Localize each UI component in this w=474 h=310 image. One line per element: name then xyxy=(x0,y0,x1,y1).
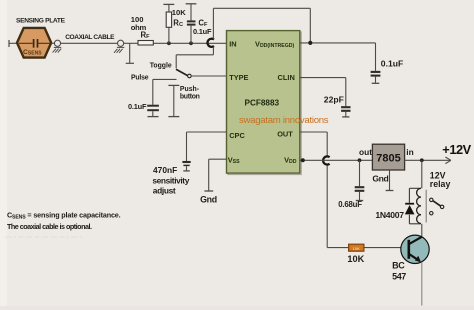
svg-text:CSENS: CSENS xyxy=(23,49,42,57)
wire sensing plate to coax left shield xyxy=(51,42,54,44)
label SENSING PLATE xyxy=(16,17,66,24)
wire relay to collector xyxy=(421,224,423,237)
label pin CLIN xyxy=(278,73,295,82)
wire coax right to RF xyxy=(124,42,138,44)
svg-text:0.1uF: 0.1uF xyxy=(128,102,147,111)
svg-text:button: button xyxy=(180,93,200,100)
svg-text:10K: 10K xyxy=(172,8,186,17)
svg-text:0.1uF: 0.1uF xyxy=(381,59,403,69)
capacitor 22pF xyxy=(341,107,350,117)
svg-text:adjust: adjust xyxy=(153,185,176,195)
wire toggle branch down-left from jump xyxy=(176,55,213,69)
svg-text:0.68uF: 0.68uF xyxy=(338,200,362,209)
label Gnd of 7805 xyxy=(372,174,388,184)
ground VSS end bar xyxy=(204,190,213,192)
svg-text:--- - -- --- -- --- --- -- - -: --- - -- --- -- --- --- -- - --- - xyxy=(5,232,83,241)
capacitor CSENS sensing plate hexagon xyxy=(17,28,51,58)
label 100 ohm xyxy=(131,15,147,32)
junction node VDD(INTREGD) xyxy=(308,41,312,45)
svg-text:BC: BC xyxy=(392,261,405,271)
svg-text:10K: 10K xyxy=(347,254,364,264)
svg-text:7805: 7805 xyxy=(376,152,400,164)
wire VDD(INTREGD) pin to 0.1uF decoupling xyxy=(300,43,376,71)
svg-text:Push-: Push- xyxy=(180,86,200,93)
svg-text:Gnd: Gnd xyxy=(200,194,217,204)
wire CLIN to 22pF xyxy=(300,78,346,107)
wire VDD pin to 7805 out xyxy=(300,159,373,161)
svg-text:The coaxial cable is optional.: The coaxial cable is optional. xyxy=(7,222,92,231)
label RF xyxy=(141,30,151,40)
op IC U1 PCF8883 body xyxy=(227,31,302,175)
svg-text:in: in xyxy=(406,147,413,157)
wire switch pole to TYPE pin xyxy=(191,75,226,77)
svg-text:+12V: +12V xyxy=(442,142,471,157)
wire emitter down xyxy=(421,262,423,305)
label 0.1uF decoupling xyxy=(381,59,403,69)
note faded third line xyxy=(5,232,83,241)
svg-text:10K: 10K xyxy=(353,246,360,251)
junction node CF bottom xyxy=(189,41,193,45)
label pin OUT xyxy=(277,129,293,138)
label +12V supply xyxy=(442,142,471,157)
resistor RC 10K xyxy=(163,4,174,43)
capacitor CF 0.1uF xyxy=(186,4,197,44)
svg-text:sensitivity: sensitivity xyxy=(152,176,189,186)
svg-text:Gnd: Gnd xyxy=(372,174,388,184)
label 12V relay xyxy=(430,170,451,189)
wire CPC to 470nF xyxy=(187,132,227,161)
coax shield left termination xyxy=(53,40,62,52)
switch S1 toggle/pulse selector xyxy=(176,69,191,78)
push-button terminals xyxy=(168,85,179,116)
wire top rail VDD(INTREGD) to toggle branch xyxy=(213,8,310,43)
wire 7805 in to +12V arrow xyxy=(405,157,451,164)
label in xyxy=(406,147,413,157)
coax shield right termination xyxy=(114,40,124,53)
wire OUT pin down to base resistor xyxy=(300,132,327,248)
svg-text:COAXIAL CABLE: COAXIAL CABLE xyxy=(65,34,115,41)
label pin VDD xyxy=(284,155,297,165)
label Gnd at VSS xyxy=(200,194,217,204)
svg-text:relay: relay xyxy=(430,179,451,189)
wire jump at IN (vertical VDD line hops IN wire) xyxy=(207,8,214,55)
wire +12V rail down to relay xyxy=(421,160,423,188)
svg-text:22pF: 22pF xyxy=(324,94,344,104)
svg-text:470nF: 470nF xyxy=(153,165,177,175)
label pin CPC xyxy=(229,131,245,140)
svg-text:OUT: OUT xyxy=(277,129,293,138)
svg-text:PCF8883: PCF8883 xyxy=(245,99,280,108)
node left terminal of sensing plate xyxy=(8,40,10,47)
wire RF to IN pin with junctions xyxy=(153,42,226,44)
resistor RF 100 ohm xyxy=(138,41,153,46)
capacitor 470nF sensitivity adjust xyxy=(182,162,190,171)
label pin VDD(INTREGD) xyxy=(255,39,295,49)
label Toggle xyxy=(150,63,172,70)
svg-text:Pulse: Pulse xyxy=(131,75,149,82)
wire left terminal to sensing plate xyxy=(9,42,18,44)
label Pulse xyxy=(131,75,149,82)
relay contacts xyxy=(430,198,444,215)
label 10K xyxy=(172,8,186,17)
svg-text:swagatam innovations: swagatam innovations xyxy=(239,115,329,126)
svg-text:CLIN: CLIN xyxy=(278,73,295,82)
wire pulse contact line xyxy=(153,79,177,104)
label COAXIAL CABLE xyxy=(65,34,115,41)
label pin VSS xyxy=(228,155,240,165)
capacitor 0.1uF at VDD(INTREGD) xyxy=(371,72,381,83)
capacitor 0.68uF xyxy=(355,160,365,200)
wire 10K to base xyxy=(364,247,408,249)
label 0.68uF xyxy=(338,200,362,209)
label 1N4007 xyxy=(375,210,404,220)
svg-text:0.1uF: 0.1uF xyxy=(193,27,212,36)
watermark swagatam innovations xyxy=(239,115,329,126)
wire VSS to Gnd xyxy=(209,159,227,190)
junction node RC bottom xyxy=(167,41,171,45)
capacitor 0.1uF at pulse line xyxy=(147,106,159,117)
svg-text:Toggle: Toggle xyxy=(150,63,172,70)
label 10K base resistor xyxy=(347,254,364,264)
svg-text:1N4007: 1N4007 xyxy=(375,210,404,220)
junction node relay feed xyxy=(420,158,424,162)
wire coax left to coax right xyxy=(61,42,118,44)
svg-text:547: 547 xyxy=(392,271,406,281)
relay RL1 12V coil with 1N4007 xyxy=(409,188,426,224)
label part number PCF8883 xyxy=(245,99,280,108)
svg-text:CPC: CPC xyxy=(229,131,245,140)
svg-text:IN: IN xyxy=(229,39,236,48)
transistor Q1 BC547 xyxy=(401,235,429,263)
label Push-button xyxy=(180,86,200,101)
label 22pF xyxy=(324,94,344,104)
wire OUT branch to base resistor xyxy=(327,247,348,249)
junction node 0.68uF tap xyxy=(358,158,362,162)
note CSENS explanation xyxy=(7,211,121,231)
label 0.1uF of CF xyxy=(193,27,212,36)
junction node at VDD pin xyxy=(301,158,305,162)
label pin TYPE xyxy=(229,73,248,82)
label pin IN xyxy=(229,39,236,48)
regulator U2 7805 xyxy=(372,144,404,170)
diode D1 1N4007 xyxy=(405,204,415,215)
label out xyxy=(359,147,372,157)
label 0.1uF of pulse capacitor xyxy=(128,102,147,111)
label RC xyxy=(173,18,183,28)
svg-text:SENSING PLATE: SENSING PLATE xyxy=(16,17,66,24)
wire jump at VDD (OUT line hops VDD wire) xyxy=(323,156,330,164)
label CF xyxy=(198,18,208,28)
label BC 547 xyxy=(392,261,406,282)
svg-text:TYPE: TYPE xyxy=(229,73,248,82)
svg-text:out: out xyxy=(359,147,372,157)
resistor R1 10K base xyxy=(349,244,364,251)
label 470nF sensitivity adjust xyxy=(152,165,189,195)
ground stub of 7805 xyxy=(386,170,394,191)
shield ground stub with end bar xyxy=(126,43,134,63)
